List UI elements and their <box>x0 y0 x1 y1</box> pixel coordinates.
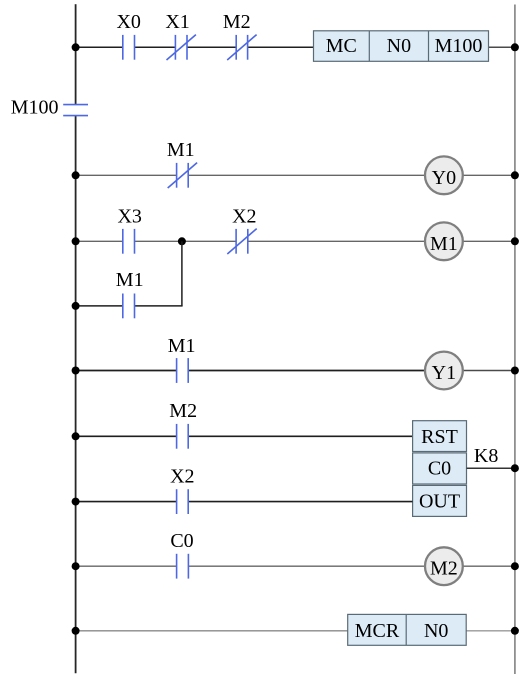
node rung1 right <box>511 43 519 51</box>
contact M1 (NC) <box>168 163 197 188</box>
node rung4 left <box>72 367 80 375</box>
node rung3 right <box>511 237 519 245</box>
counter box C0 <box>413 453 467 484</box>
instruction box MC N0 M100 <box>314 31 489 62</box>
node rung2 right <box>511 171 519 179</box>
wire rung8 left <box>76 630 348 632</box>
svg-text:X1: X1 <box>165 11 189 33</box>
node K8 right <box>511 464 519 472</box>
svg-text:X3: X3 <box>117 205 141 227</box>
contact M1 rung4 (NO) <box>177 358 189 383</box>
wire rung8 right <box>466 630 515 632</box>
node rung3 branch junction <box>178 237 186 245</box>
coil M1 <box>425 222 463 260</box>
svg-text:M2: M2 <box>169 400 197 422</box>
svg-text:M2: M2 <box>430 558 458 580</box>
wire rung7 <box>76 565 515 567</box>
contact C0 (NO) <box>177 554 189 579</box>
node rung7 right <box>511 562 519 570</box>
svg-text:OUT: OUT <box>419 491 460 513</box>
wire rung4 <box>76 370 515 372</box>
wire rung1 <box>76 46 314 48</box>
wire rung1 box to rail <box>489 46 515 48</box>
coil Y1 <box>425 352 463 390</box>
node rung3 left <box>72 237 80 245</box>
node rung4 right <box>511 367 519 375</box>
contact M100 (vertical, on left rail) <box>63 105 88 116</box>
svg-text:X2: X2 <box>232 205 256 227</box>
svg-text:N0: N0 <box>387 35 411 57</box>
node rung2 left <box>72 171 80 179</box>
svg-text:C0: C0 <box>428 457 451 479</box>
right power rail <box>514 5 516 675</box>
svg-text:M100: M100 <box>11 97 59 119</box>
node branch left <box>72 302 80 310</box>
svg-text:X0: X0 <box>116 11 140 33</box>
svg-text:M1: M1 <box>167 139 195 161</box>
counter box OUT <box>413 485 467 516</box>
svg-text:M1: M1 <box>168 335 196 357</box>
node rung1 left <box>72 43 80 51</box>
left power rail <box>75 4 77 673</box>
coil Y0 <box>425 156 463 194</box>
svg-text:M100: M100 <box>435 35 483 57</box>
wire K8 <box>467 467 515 469</box>
svg-text:M2: M2 <box>223 11 251 33</box>
instruction box MCR N0 <box>348 614 467 645</box>
svg-text:MCR: MCR <box>355 620 400 642</box>
counter box texts <box>419 426 460 513</box>
node rung8 right <box>511 627 519 635</box>
contact M2 (NC) <box>227 35 256 60</box>
contact X0 (NO) <box>123 35 135 60</box>
contact M2 rung5 (NO) <box>177 424 189 449</box>
node rung5 left <box>72 432 80 440</box>
contact M1 branch (NO) <box>123 294 135 319</box>
svg-text:Y0: Y0 <box>432 167 456 189</box>
contact X2 (NC) <box>227 229 256 254</box>
svg-text:M1: M1 <box>430 233 458 255</box>
coil M2 <box>425 547 463 585</box>
wire rung3 <box>76 240 515 242</box>
node rung8 left <box>72 627 80 635</box>
contact X3 (NO) <box>123 229 135 254</box>
wire branch horizontal <box>76 305 183 307</box>
node rung6 left <box>72 498 80 506</box>
wire branch vertical <box>181 241 183 306</box>
svg-text:X2: X2 <box>170 465 194 487</box>
svg-text:M1: M1 <box>116 269 144 291</box>
wire rung2 <box>76 174 515 176</box>
svg-text:RST: RST <box>421 426 458 448</box>
svg-text:K8: K8 <box>474 445 498 467</box>
svg-text:N0: N0 <box>424 620 448 642</box>
contact X1 (NC) <box>167 35 196 60</box>
wire rung6 <box>76 501 413 503</box>
svg-text:C0: C0 <box>170 530 193 552</box>
wire rung5 <box>76 435 413 437</box>
svg-text:MC: MC <box>326 35 357 57</box>
counter box RST <box>413 421 467 452</box>
node rung7 left <box>72 562 80 570</box>
contact X2 rung6 (NO) <box>177 489 189 514</box>
svg-text:Y1: Y1 <box>432 362 456 384</box>
